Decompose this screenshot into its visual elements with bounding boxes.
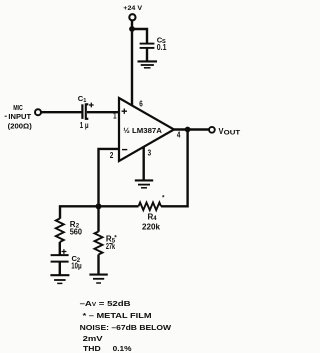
wire feedback node to R5	[97, 206, 99, 231]
node MIC INPUT terminal	[5, 105, 41, 131]
junction supply/CS	[129, 26, 135, 32]
svg-text:MIC: MIC	[13, 105, 23, 112]
svg-text:THD: THD	[83, 344, 101, 353]
node +24V supply terminal	[123, 5, 142, 21]
wire CS branch	[132, 29, 147, 43]
svg-text:½ LM387A: ½ LM387A	[123, 126, 162, 135]
svg-text:–AV = 52dB: –AV = 52dB	[80, 299, 132, 308]
svg-text:2: 2	[110, 151, 114, 160]
wire supply vertical	[131, 21, 133, 107]
svg-text:27k: 27k	[106, 242, 115, 251]
op-amp U1 half LM387A	[119, 98, 174, 161]
wire feedback node to R2 branch	[60, 206, 99, 218]
svg-text:0.1: 0.1	[157, 43, 167, 52]
wire C2 to ground	[59, 262, 61, 275]
wire C1 to pin 1	[87, 111, 119, 113]
svg-text:NOISE: –67dB BELOW: NOISE: –67dB BELOW	[80, 323, 172, 332]
svg-text:+24 V: +24 V	[123, 5, 142, 12]
svg-text:3: 3	[148, 149, 152, 158]
capacitor C1	[78, 94, 94, 130]
resistor R2	[56, 219, 83, 243]
ground pin 3	[135, 180, 153, 187]
svg-text:220k: 220k	[142, 223, 160, 232]
svg-text:4: 4	[177, 130, 181, 139]
wire output	[174, 128, 209, 130]
wire R4 to feedback junction	[99, 205, 139, 207]
svg-text:6: 6	[139, 100, 143, 109]
svg-text:(200Ω): (200Ω)	[8, 123, 32, 130]
resistor R5	[95, 232, 118, 255]
svg-text:560: 560	[70, 228, 83, 237]
svg-text:10μ: 10μ	[71, 262, 81, 271]
wire MIC to C1	[41, 111, 82, 113]
ground CS	[138, 61, 158, 67]
wire R5 to ground	[97, 255, 99, 275]
svg-text:1: 1	[113, 112, 117, 121]
svg-text:1 μ: 1 μ	[80, 121, 89, 130]
resistor R4	[139, 195, 166, 232]
wire CS to ground	[146, 48, 148, 61]
node VOUT terminal	[209, 127, 240, 137]
wire R2 to C2	[59, 242, 61, 255]
capacitor C2	[51, 249, 82, 271]
svg-text:1: 1	[83, 98, 86, 104]
capacitor CS	[140, 35, 167, 52]
svg-text:2mV: 2mV	[83, 334, 104, 343]
junction output node	[185, 127, 191, 133]
wire pin 2	[99, 149, 120, 205]
ground R5	[89, 275, 107, 283]
junction feedback node	[96, 203, 102, 209]
svg-text:INPUT: INPUT	[8, 114, 31, 121]
svg-text:0.1%: 0.1%	[113, 344, 132, 353]
svg-text:OUT: OUT	[224, 130, 241, 137]
ground C2	[50, 275, 69, 283]
wire feedback from output down to R4	[161, 130, 188, 207]
wire pin 3	[142, 147, 144, 181]
svg-text:* – METAL FILM: * – METAL FILM	[83, 311, 152, 320]
